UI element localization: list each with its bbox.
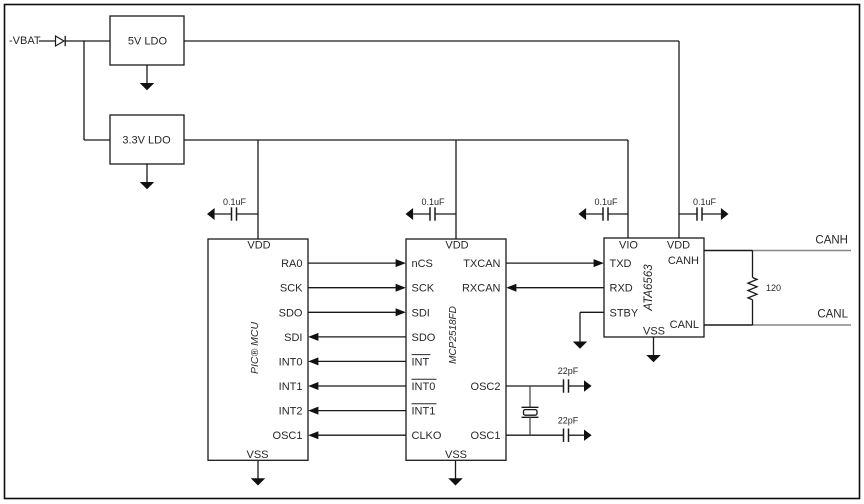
svg-text:INT0: INT0 <box>412 381 436 393</box>
svg-text:CANH: CANH <box>668 255 699 267</box>
svg-text:VDD: VDD <box>445 239 468 251</box>
svg-text:SCK: SCK <box>280 283 303 295</box>
svg-text:0.1uF: 0.1uF <box>693 197 717 207</box>
svg-text:0.1uF: 0.1uF <box>421 197 445 207</box>
svg-text:nCS: nCS <box>412 258 433 270</box>
svg-text:INT0: INT0 <box>279 356 303 368</box>
svg-text:CANL: CANL <box>817 308 848 320</box>
svg-text:VSS: VSS <box>445 449 467 461</box>
svg-text:SDO: SDO <box>412 332 436 344</box>
svg-text:OSC1: OSC1 <box>273 430 303 442</box>
svg-text:INT2: INT2 <box>279 406 303 418</box>
svg-text:RXCAN: RXCAN <box>462 283 501 295</box>
svg-text:22pF: 22pF <box>558 415 579 425</box>
svg-text:VDD: VDD <box>667 239 690 251</box>
svg-text:SDI: SDI <box>412 307 430 319</box>
svg-text:SDO: SDO <box>279 307 303 319</box>
svg-text:TXD: TXD <box>610 258 632 270</box>
svg-text:RXD: RXD <box>610 283 633 295</box>
svg-text:SDI: SDI <box>284 332 302 344</box>
svg-text:PIC® MCU: PIC® MCU <box>249 322 261 374</box>
svg-text:ATA6563: ATA6563 <box>643 264 655 312</box>
svg-text:CANL: CANL <box>670 319 699 331</box>
svg-text:CLKO: CLKO <box>412 430 442 442</box>
svg-text:5V LDO: 5V LDO <box>128 35 168 47</box>
svg-text:OSC1: OSC1 <box>471 430 501 442</box>
svg-text:INT: INT <box>412 356 430 368</box>
svg-text:VDD: VDD <box>247 239 270 251</box>
svg-text:CANH: CANH <box>815 234 848 246</box>
svg-text:22pF: 22pF <box>558 366 579 376</box>
svg-text:INT1: INT1 <box>412 406 436 418</box>
svg-text:RA0: RA0 <box>281 258 302 270</box>
svg-text:VSS: VSS <box>246 449 268 461</box>
svg-text:VSS: VSS <box>643 325 665 337</box>
svg-text:-VBAT: -VBAT <box>9 35 41 47</box>
svg-text:STBY: STBY <box>610 307 639 319</box>
svg-text:MCP2518FD: MCP2518FD <box>448 306 459 364</box>
svg-text:120: 120 <box>766 283 781 293</box>
svg-text:SCK: SCK <box>412 283 435 295</box>
svg-text:TXCAN: TXCAN <box>463 258 500 270</box>
svg-text:0.1uF: 0.1uF <box>223 197 247 207</box>
svg-text:INT1: INT1 <box>279 381 303 393</box>
svg-text:OSC2: OSC2 <box>471 381 501 393</box>
svg-text:VIO: VIO <box>619 239 638 251</box>
svg-text:3.3V LDO: 3.3V LDO <box>122 134 171 146</box>
svg-text:0.1uF: 0.1uF <box>594 197 618 207</box>
